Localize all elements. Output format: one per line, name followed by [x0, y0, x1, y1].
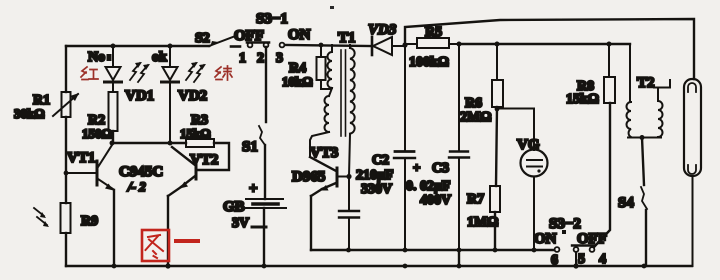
switch S1	[242, 126, 265, 155]
wire secondary ground bus y250	[311, 248, 554, 253]
svg-text:3: 3	[276, 51, 283, 66]
svg-text:GB: GB	[223, 199, 245, 215]
svg-text:3V: 3V	[232, 216, 249, 231]
wire ON contact to oscillator	[285, 43, 372, 48]
svg-text:S4: S4	[618, 195, 634, 211]
wire R7 down	[494, 212, 496, 250]
transistor VT3 D965	[292, 145, 352, 196]
svg-text:T2: T2	[637, 75, 655, 91]
svg-text:ok: ok	[152, 50, 167, 65]
svg-text:C2: C2	[372, 153, 389, 168]
fluorescent tube lamp	[684, 79, 701, 266]
svg-text:4: 4	[599, 252, 606, 267]
svg-text:150Ω: 150Ω	[82, 126, 112, 141]
svg-text:OFF: OFF	[577, 231, 607, 247]
svg-text:OFF: OFF	[234, 28, 264, 44]
resistor R9 (photoresistor)	[34, 203, 98, 233]
resistor R5 100k	[405, 25, 462, 70]
switch S2	[195, 31, 234, 47]
resistor R4 10k	[282, 45, 331, 89]
wire R2 bottom to collector node	[112, 131, 114, 143]
wire contact2 down to S1	[265, 47, 267, 122]
LED VD2	[152, 44, 207, 144]
wire R3 right to VT2 base	[198, 143, 229, 170]
neon lamp VG	[497, 109, 548, 251]
wire VT2 emitter down	[167, 196, 169, 266]
svg-text:2MΩ: 2MΩ	[460, 110, 491, 125]
wire main bus right	[459, 42, 630, 47]
svg-text:+: +	[249, 181, 258, 197]
resistor R7 1M	[467, 186, 500, 230]
label C945C x2	[119, 164, 163, 194]
wire top bypass long	[405, 19, 694, 79]
transformer T1	[310, 30, 356, 176]
svg-text:S3−2: S3−2	[549, 216, 581, 232]
resistor R2 150	[82, 92, 118, 141]
wire S4 down	[645, 210, 647, 266]
wire left rail middle	[65, 117, 67, 203]
svg-text:VD2: VD2	[178, 88, 207, 104]
svg-text:400V: 400V	[420, 193, 451, 208]
svg-text:330V: 330V	[361, 182, 392, 197]
svg-text:R5: R5	[425, 25, 442, 40]
svg-text:1MΩ: 1MΩ	[467, 215, 498, 230]
wire collector bus y143	[110, 141, 187, 146]
svg-text:VD3: VD3	[368, 22, 397, 38]
wire VT3 emitter down	[310, 196, 312, 250]
svg-text:ON: ON	[534, 231, 557, 247]
svg-text:+: +	[413, 160, 420, 175]
svg-text:VD1: VD1	[125, 88, 154, 104]
label tu yi (figure 1) red	[142, 230, 198, 261]
battery GB 3V	[223, 181, 286, 231]
svg-text:0. 02μF: 0. 02μF	[406, 179, 451, 194]
label red lu	[215, 66, 232, 80]
svg-text:No: No	[88, 50, 105, 65]
capacitor C3	[406, 44, 469, 250]
wire C3 link to rail	[458, 250, 460, 266]
wire top-left rail horizontal	[66, 45, 209, 47]
switch S4	[618, 187, 647, 211]
svg-text:15kΩ: 15kΩ	[180, 126, 211, 141]
svg-text:R7: R7	[467, 192, 484, 207]
capacitor feedback under VT3 base	[339, 177, 359, 251]
svg-text:VT1: VT1	[67, 150, 95, 166]
svg-text:VT3: VT3	[310, 145, 338, 161]
svg-text:D965: D965	[292, 169, 325, 185]
svg-text:C945C: C945C	[119, 164, 163, 180]
resistor R1 (potentiometer 30k)	[14, 92, 79, 121]
svg-text:100kΩ: 100kΩ	[409, 55, 449, 70]
node VT1 base junction	[64, 171, 69, 176]
stray scan mark	[330, 6, 334, 9]
wire battery down to rail	[263, 208, 265, 266]
svg-text:C3: C3	[432, 161, 449, 176]
svg-text:5: 5	[578, 252, 585, 267]
svg-text:30kΩ: 30kΩ	[14, 106, 45, 121]
svg-text:10kΩ: 10kΩ	[282, 74, 313, 89]
resistor R8 15k	[566, 44, 615, 107]
node main junction after VD3	[402, 42, 407, 47]
transistor VT2	[168, 147, 218, 196]
svg-text:R9: R9	[81, 214, 98, 229]
wire T2 center down	[642, 138, 644, 186]
svg-text:210μF: 210μF	[356, 168, 394, 183]
svg-text:R6: R6	[465, 96, 482, 111]
svg-text:VG: VG	[517, 137, 540, 153]
resistor R3 15k	[180, 113, 214, 147]
svg-text:VT2: VT2	[190, 152, 218, 168]
switch S3-1 contacts	[231, 11, 311, 66]
svg-text:S1: S1	[242, 139, 258, 155]
svg-text:1: 1	[239, 51, 246, 66]
LED VD1	[88, 44, 154, 105]
svg-text:2: 2	[257, 51, 264, 66]
wire left rail lower	[65, 233, 67, 266]
wire VT1 emitter down	[113, 190, 115, 266]
transistor VT1	[66, 145, 114, 191]
svg-text:15kΩ: 15kΩ	[566, 92, 599, 107]
resistor R6 2M	[460, 44, 503, 125]
wire S1 to battery	[264, 145, 266, 199]
switch S3-2	[534, 216, 607, 268]
wire R6 to R7	[495, 107, 500, 186]
wire bottom rail	[66, 263, 692, 268]
svg-text:S3−1: S3−1	[256, 11, 288, 27]
wire left rail upper	[65, 46, 67, 92]
capacitor C2 electrolytic	[356, 45, 420, 250]
svg-text:ON: ON	[288, 27, 311, 43]
label red hong	[81, 67, 98, 80]
wire R8 down to S3-2	[594, 103, 610, 247]
diode VD3	[368, 22, 405, 55]
transformer T2	[627, 44, 671, 140]
svg-text:T1: T1	[338, 30, 356, 46]
svg-text:/- 2: /- 2	[127, 179, 146, 194]
svg-text:S2: S2	[195, 31, 210, 46]
